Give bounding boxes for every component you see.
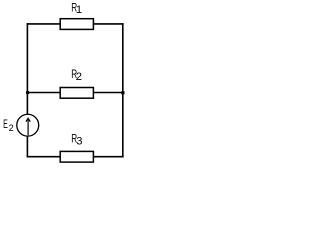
source E2 arrow head [26, 118, 30, 121]
wire: left vertical (top wire down to source E2) [26, 23, 28, 115]
svg-text:2: 2 [9, 123, 14, 133]
label E2 [3, 118, 14, 133]
svg-text:2: 2 [76, 71, 82, 83]
resistor R3 [60, 151, 93, 162]
wire: middle horizontal net [27, 92, 124, 94]
label R2 [71, 68, 82, 83]
junction: right middle node [121, 91, 124, 94]
svg-text:1: 1 [76, 4, 82, 16]
resistor R2 [60, 88, 93, 99]
wire: right vertical bus [122, 23, 124, 157]
label R1 [71, 1, 82, 16]
junction: left middle node [26, 91, 29, 94]
wire: top horizontal net [27, 23, 124, 25]
svg-text:E: E [3, 118, 8, 131]
label R3 [71, 132, 82, 147]
wire: bottom horizontal net [27, 156, 124, 158]
source E2 arrow shaft [27, 119, 29, 135]
resistor R1 [60, 19, 93, 30]
wire: left vertical (source E2 down to bottom wire) [26, 136, 28, 158]
source E2 (circle) [17, 114, 39, 136]
svg-text:3: 3 [76, 135, 82, 147]
